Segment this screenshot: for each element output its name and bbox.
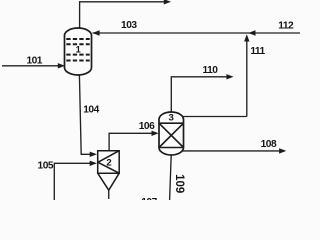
svg-text:108: 108 (261, 139, 277, 150)
arrowhead 101 into vessel 1 (58, 63, 65, 68)
svg-text:111: 111 (250, 46, 265, 57)
wire stream 111 vertical riser (246, 36, 248, 117)
vessel 3 reactor shell (159, 112, 184, 155)
vessel 1 dashed trays (66, 39, 89, 61)
wire stream 110 line (171, 77, 227, 112)
svg-text:2: 2 (106, 157, 111, 168)
arrowhead 112 at junction (248, 30, 255, 35)
arrowhead 111 up into junction (244, 34, 249, 41)
arrowhead 103 into vessel 1 (92, 30, 99, 35)
svg-text:101: 101 (26, 55, 42, 66)
svg-text:106: 106 (139, 121, 155, 132)
svg-text:105: 105 (38, 161, 54, 172)
wire vessel 2 cone bottom stub (107) (108, 190, 110, 199)
vessel 1 column shell (65, 28, 92, 75)
wire stream 101 line (2, 65, 59, 67)
vessel 3 X packing bed (159, 123, 184, 147)
svg-text:3: 3 (169, 112, 174, 123)
wire stream 104 line (79, 75, 90, 155)
svg-text:1: 1 (76, 44, 81, 54)
wire stream 106 line (109, 133, 152, 150)
wire stream 103/112 horizontal line (93, 32, 301, 34)
svg-text:103: 103 (121, 20, 137, 31)
svg-text:112: 112 (278, 20, 294, 31)
wire vessel 3 top-right to 111 riser (183, 116, 247, 118)
svg-text:107: 107 (141, 197, 157, 200)
arrowhead 104 into vessel 2 (90, 152, 97, 157)
arrowhead 110 (226, 74, 233, 79)
arrowhead 105 into vessel 2 (90, 161, 97, 166)
svg-text:109: 109 (173, 174, 185, 193)
wire stream 105 line (54, 163, 90, 200)
arrowhead overhead stream (top) (164, 0, 171, 5)
svg-text:104: 104 (83, 104, 99, 115)
wire overhead vapor line from vessel 1 top (80, 2, 165, 29)
arrowhead 108 (279, 148, 286, 153)
wire stream 109 line (170, 155, 172, 200)
vessel 2 cyclone body (98, 151, 120, 191)
wire stream 108 line (181, 150, 285, 152)
arrowhead 106 into vessel 3 (152, 131, 159, 136)
svg-text:110: 110 (203, 65, 219, 76)
